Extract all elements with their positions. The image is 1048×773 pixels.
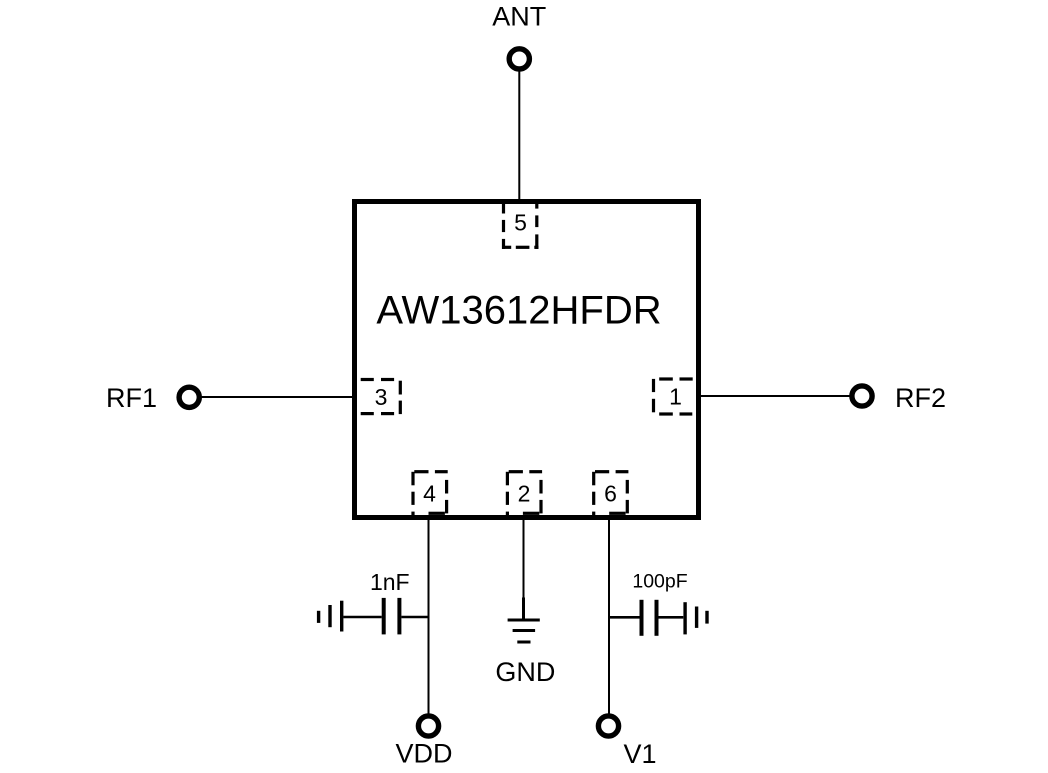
svg-text:RF2: RF2 xyxy=(895,383,946,413)
svg-text:V1: V1 xyxy=(624,739,657,769)
svg-text:ANT: ANT xyxy=(492,2,546,32)
svg-text:GND: GND xyxy=(495,657,555,687)
svg-text:100pF: 100pF xyxy=(632,571,687,593)
svg-text:5: 5 xyxy=(514,210,527,236)
svg-text:AW13612HFDR: AW13612HFDR xyxy=(376,289,661,333)
svg-text:6: 6 xyxy=(604,481,617,507)
svg-text:2: 2 xyxy=(518,481,531,507)
svg-text:3: 3 xyxy=(375,384,388,410)
svg-text:RF1: RF1 xyxy=(106,383,157,413)
svg-text:4: 4 xyxy=(423,481,436,507)
svg-text:1: 1 xyxy=(669,384,682,410)
svg-text:VDD: VDD xyxy=(395,739,452,769)
svg-text:1nF: 1nF xyxy=(370,569,410,595)
